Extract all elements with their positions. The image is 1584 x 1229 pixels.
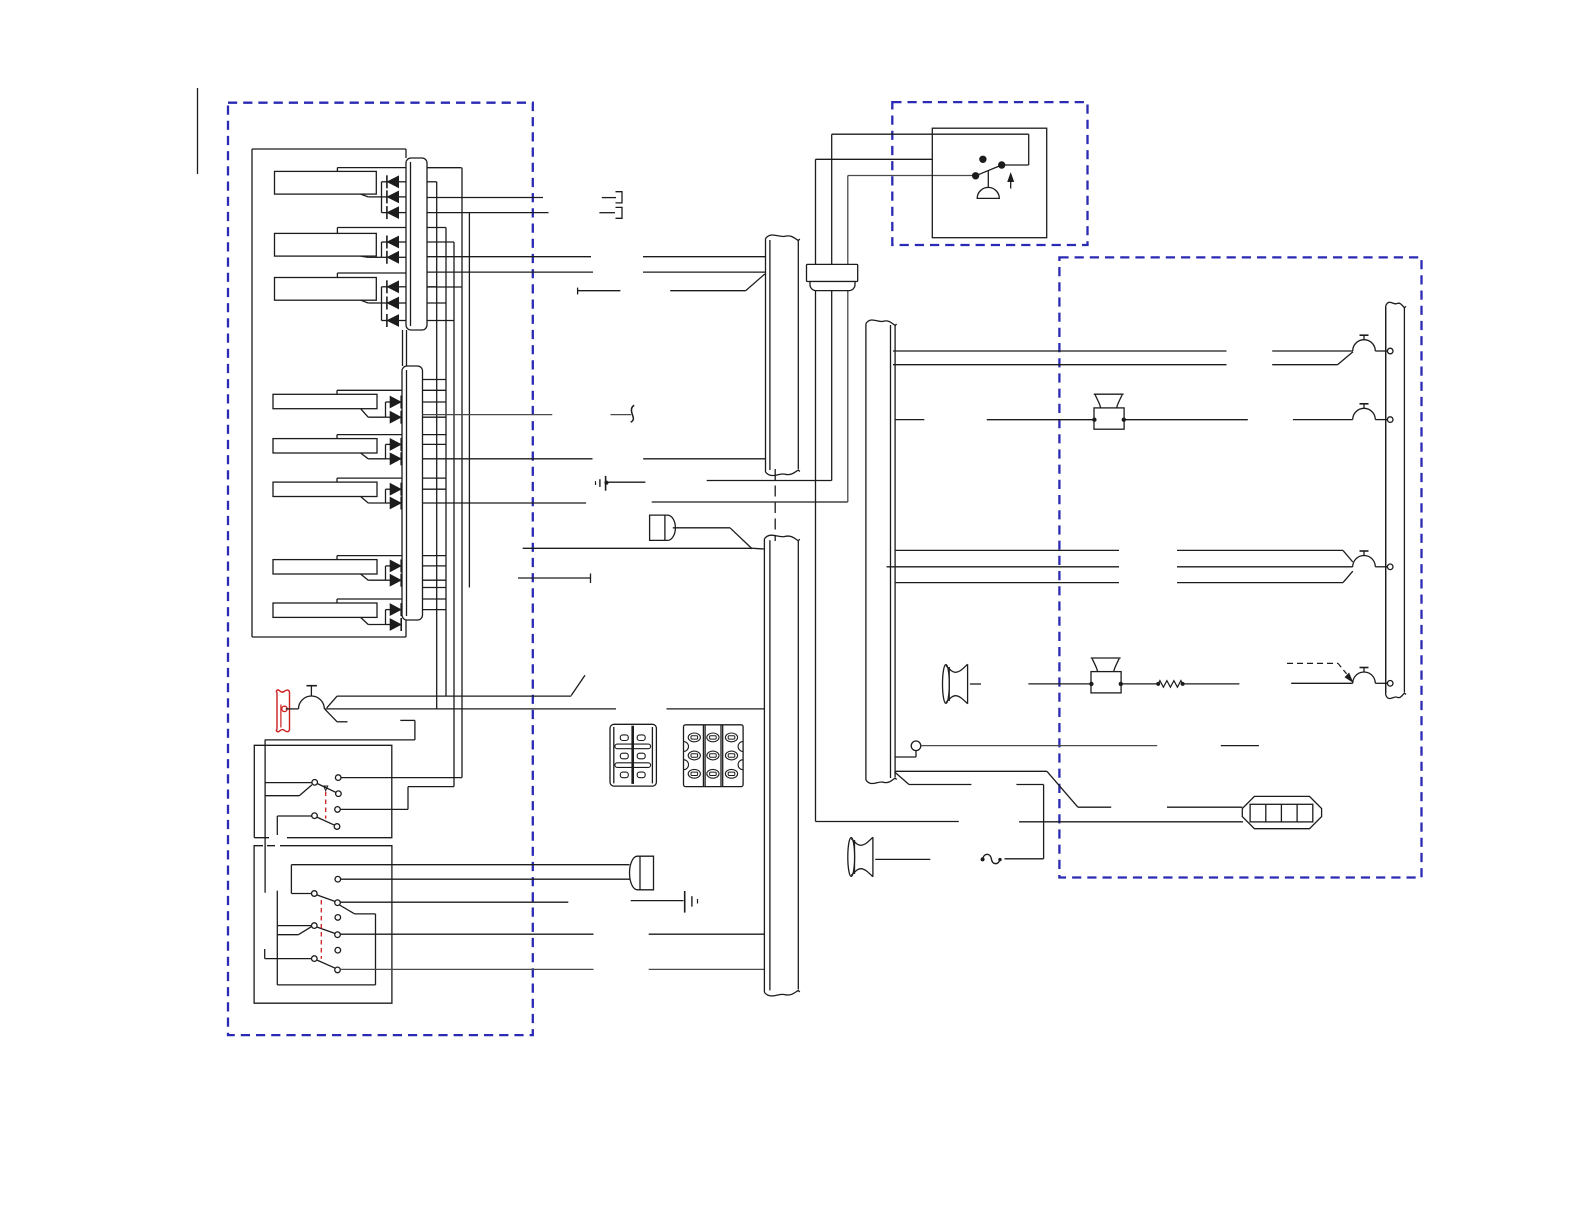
- diode branch B1: [385, 402, 387, 417]
- wire: cluster row to stub terminator 1: [427, 197, 543, 199]
- buzzer B1 (dome with tee): [286, 708, 299, 710]
- terminal on bar (L1): [1387, 348, 1393, 354]
- harness H2: [865, 324, 867, 781]
- terminal E2: [335, 915, 341, 921]
- alignment dash-dot line: [774, 469, 776, 541]
- socket S7 (spool): [851, 837, 873, 877]
- wire: H2 to lamp L1 (upper): [893, 350, 1227, 352]
- wire with inline splice (row 414): [423, 414, 553, 416]
- diode (lamp B5): [386, 624, 391, 626]
- terminal on bar (L3): [1387, 564, 1393, 570]
- wire: cluster row to stub terminator 2: [427, 212, 549, 214]
- terminal ring T1: [911, 741, 921, 751]
- diode (lamp A2): [382, 241, 388, 243]
- terminal on bar (L4): [1387, 681, 1393, 687]
- harness H3: [763, 539, 765, 993]
- diode (lamp A3): [382, 302, 388, 304]
- wire: S6 stub: [970, 683, 981, 685]
- wire: ground to vertical riser (row 481): [607, 481, 645, 483]
- mating connector outline J1: [427, 167, 461, 169]
- horn HN1: [1094, 408, 1124, 429]
- diode (lamp B2): [386, 458, 391, 460]
- switch S1 blade: [317, 784, 336, 793]
- wire: SW2 feed loop: [290, 865, 292, 894]
- switch S1 NC terminal: [335, 775, 341, 781]
- switch box SW1: [254, 745, 391, 837]
- switch S1 common terminal: [312, 780, 318, 786]
- TB1 center bar: [631, 726, 634, 784]
- harness bus verticals: [436, 182, 438, 709]
- fuse link curl: [983, 854, 1000, 863]
- actuation arrow: [1010, 179, 1012, 189]
- indicator lamp B5: [273, 603, 377, 617]
- switch S2 common wire: [277, 815, 311, 817]
- wire: riser to octagon connector row: [816, 821, 959, 823]
- switch S5 common wire: [264, 949, 266, 959]
- indicator lamp A2: [275, 233, 377, 256]
- indicator lamp B3: [273, 482, 377, 496]
- socket S6 (spool): [946, 664, 968, 704]
- switch S4 common terminal: [312, 923, 318, 929]
- switch S5 blade: [317, 960, 335, 968]
- wire: H2 corner to connector C4: [895, 770, 1047, 772]
- diode (lamp A1): [382, 181, 388, 183]
- lamp L2: [1353, 408, 1376, 419]
- diode (lamp B1): [386, 416, 391, 418]
- diode branch B5: [385, 610, 387, 625]
- switch S3 NO terminal: [335, 900, 341, 906]
- wire: to harness H3 top: [523, 547, 754, 549]
- wire: plug P1 to harness H3: [673, 527, 730, 529]
- wire riser to switch (mid): [815, 159, 817, 821]
- wire: cluster to harness H1 (row 459): [423, 458, 593, 460]
- wire riser to switch (bottom): [847, 176, 849, 503]
- diode (lamp A1): [382, 212, 388, 214]
- wire: H2 corner to fuse link: [895, 772, 910, 785]
- switch S5 NO terminal: [335, 967, 341, 973]
- diode (lamp A1): [382, 196, 388, 198]
- diode branch A1: [381, 182, 383, 213]
- switch S1 NO terminal: [336, 791, 342, 797]
- switch lever: [976, 165, 1002, 176]
- wire: buzzer tail stub: [325, 709, 338, 722]
- mating connector outline J2: [423, 379, 447, 381]
- horn switch box: [932, 128, 1046, 238]
- switch S4 common wires: [277, 925, 311, 927]
- dashed boundary: switch area: [892, 102, 1087, 245]
- contact B: [999, 162, 1005, 168]
- cable clamp: [807, 264, 858, 281]
- wire: H2 to lamp L1 (lower): [893, 364, 1227, 366]
- dashed optional wire: [1287, 662, 1338, 664]
- connector J2 body: [402, 366, 423, 620]
- wire segment (row 746): [1221, 745, 1259, 747]
- riser into switch boxes: [264, 740, 266, 893]
- contact A: [980, 156, 986, 162]
- wire: S3 loop to S4: [340, 905, 355, 914]
- wire: S1 NC out: [341, 777, 462, 779]
- wire: S4 out: [340, 933, 593, 935]
- lamp L4: [1353, 672, 1376, 683]
- switch S2 blade: [317, 817, 335, 825]
- diode branch B2: [385, 444, 387, 458]
- wire: T1 to right (gray): [921, 745, 1157, 747]
- diode (lamp B3): [386, 502, 391, 504]
- wire: S1 NO out with jog: [340, 808, 408, 810]
- ground symbol G2: [631, 900, 684, 902]
- switch S4 blade: [317, 927, 335, 934]
- wire stub with tick (row 291): [577, 288, 579, 295]
- diode branch A3: [381, 287, 383, 321]
- terminal block TB2: [684, 725, 744, 787]
- indicator lamp A1: [275, 171, 377, 194]
- wire: HN2 to resistor: [1121, 683, 1158, 685]
- wire: cluster to switch feed (row 502): [423, 502, 587, 504]
- wire: to horn HN1: [987, 419, 1094, 421]
- splice curl: [631, 405, 635, 422]
- wire: buzzer lower to harness H3: [325, 708, 616, 710]
- diode (lamp B2): [386, 443, 391, 445]
- connector J1 body: [406, 158, 427, 330]
- wire: H2 to T1: [895, 756, 916, 758]
- wire: HN1 to lamp L2: [1124, 419, 1248, 421]
- diode (lamp A3): [382, 286, 388, 288]
- wire: resistor to lamp L4: [1183, 683, 1240, 685]
- wire riser to switch (top): [831, 134, 833, 480]
- diode branch B3: [385, 489, 387, 503]
- indicator lamp B4: [273, 560, 377, 574]
- indicator lamp B1: [273, 394, 377, 408]
- diode (lamp B4): [386, 579, 391, 581]
- page edge mark: [197, 88, 199, 174]
- indicator lamp B2: [273, 439, 377, 453]
- harness H4: [1385, 306, 1387, 695]
- contact C: [972, 173, 978, 179]
- red flag connector: [276, 690, 289, 732]
- wire: H2 stub (L2 circuit): [895, 419, 924, 421]
- dashed boundary: instrument cluster area: [228, 103, 533, 1035]
- wire: to horn HN2: [1028, 683, 1091, 685]
- diode (lamp B3): [386, 488, 391, 490]
- connector J2 pin stubs: [423, 389, 447, 391]
- diode (lamp B5): [386, 609, 391, 611]
- diode branch B4: [385, 566, 387, 580]
- dashed boundary: lamp/horn area: [1059, 257, 1421, 877]
- wire: socket S7 to fuse link: [875, 858, 930, 860]
- switch S5 common terminal: [312, 956, 318, 962]
- wire: cluster to harness H1 (row 257): [427, 256, 591, 258]
- wire: S3 out: [340, 901, 568, 903]
- lamp L1: [1353, 340, 1376, 351]
- motion arrow: [324, 786, 328, 791]
- pushbutton dome: [977, 187, 999, 198]
- switch box SW2: [254, 846, 392, 1004]
- diode (lamp A3): [382, 320, 388, 322]
- diode (lamp B1): [386, 401, 391, 403]
- cluster housing box: [252, 148, 406, 150]
- wire: E1 to plug P2: [341, 878, 630, 880]
- wire stub with tick (row 576): [518, 577, 591, 579]
- riser x277: [276, 891, 278, 985]
- switch S2 common terminal: [312, 813, 318, 819]
- lamp L3: [1353, 555, 1376, 566]
- wire: jog down to switch feed: [400, 719, 415, 721]
- terminal E1: [335, 876, 341, 882]
- diode (lamp A2): [382, 256, 388, 258]
- terminal on bar (L2): [1387, 417, 1393, 423]
- terminal E3: [335, 947, 341, 953]
- connector plug P2: [630, 856, 654, 890]
- open connector terminal 1: [602, 197, 616, 199]
- pushbutton stem: [987, 171, 989, 188]
- wire: buzzer to disconnect blade: [327, 696, 337, 708]
- switch S4 NO terminal: [335, 932, 341, 938]
- switch S3 blade: [317, 895, 335, 902]
- wire: cluster to harness H1 (row 272): [427, 271, 593, 273]
- resistor R1: [1158, 681, 1182, 688]
- gang link (red dashed): [325, 792, 327, 819]
- horn HN2: [1091, 672, 1121, 693]
- indicator lamp A3: [275, 278, 377, 301]
- switch S1 common wires: [265, 782, 312, 784]
- gang link (red dashed): [320, 900, 322, 959]
- ground symbol G1: [605, 476, 607, 491]
- connector J1 pin stubs: [427, 167, 461, 169]
- wire: top feed into switch: [1028, 134, 1030, 165]
- switch S2 NO terminal: [334, 824, 340, 830]
- switch S2 upper terminal: [335, 807, 341, 813]
- harness H1: [765, 239, 767, 473]
- octagon connector C4: [1242, 796, 1321, 828]
- wire: S5 out: [340, 968, 593, 970]
- terminal block TB1: [610, 724, 656, 786]
- wire: H2 to lamp L3 (three leads): [895, 549, 1119, 551]
- switch S3 common terminal: [312, 891, 318, 897]
- diode (lamp B4): [386, 565, 391, 567]
- open connector terminal 2: [599, 212, 615, 214]
- connector plug P1: [650, 515, 665, 540]
- diode branch A2: [381, 242, 383, 257]
